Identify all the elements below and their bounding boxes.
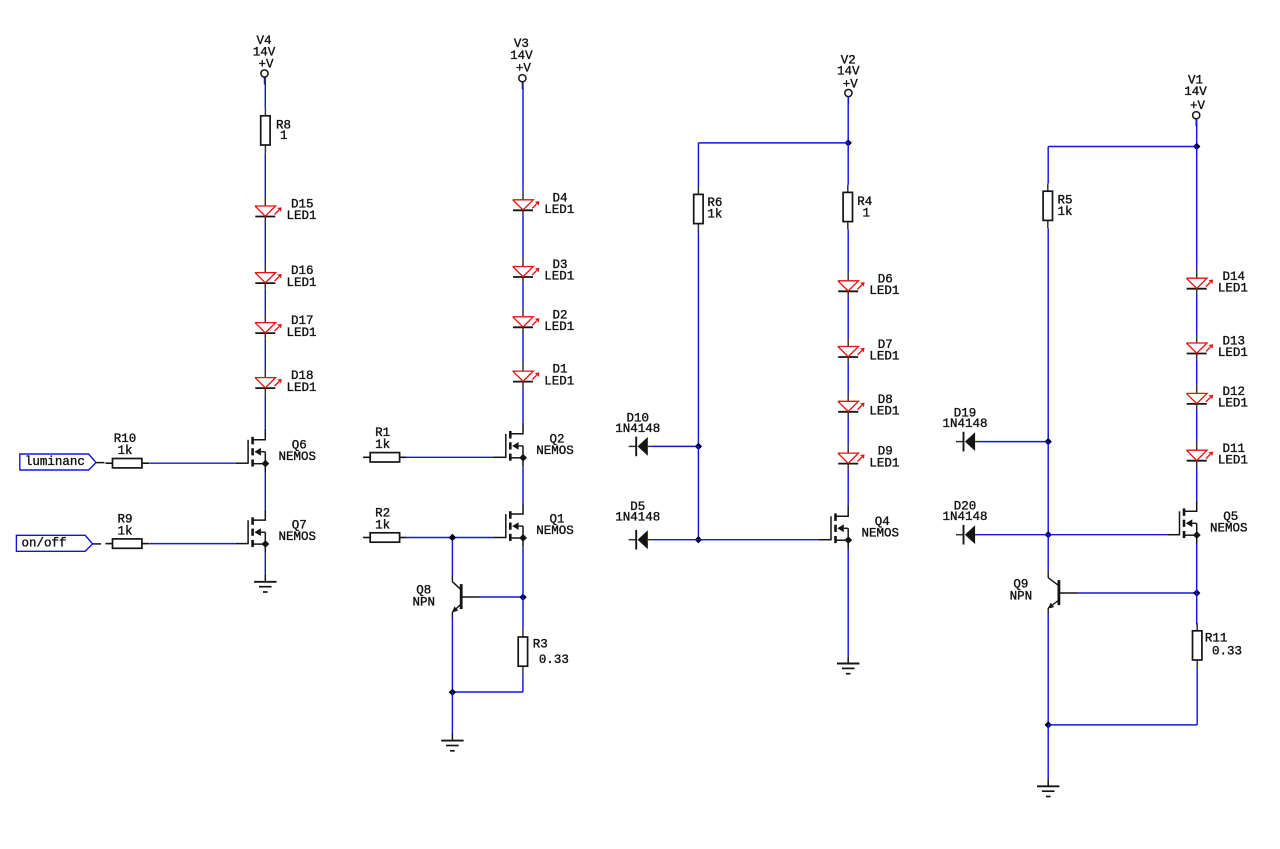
svg-text:LED1: LED1 [286,326,316,340]
svg-text:LED1: LED1 [544,374,574,388]
svg-text:1k: 1k [117,444,132,458]
svg-text:LED1: LED1 [1218,281,1248,295]
svg-text:1k: 1k [117,524,132,538]
svg-text:LED1: LED1 [1218,397,1248,411]
svg-text:LED1: LED1 [544,270,574,284]
svg-text:LED1: LED1 [869,456,899,470]
svg-text:1k: 1k [375,518,390,532]
svg-text:+V: +V [1190,99,1206,113]
svg-text:NPN: NPN [1010,589,1033,603]
svg-text:LED1: LED1 [286,276,316,290]
svg-text:1N4148: 1N4148 [615,422,660,436]
svg-text:1N4148: 1N4148 [615,511,660,525]
svg-text:on/off: on/off [22,536,67,550]
svg-text:NEMOS: NEMOS [536,444,574,458]
svg-text:NEMOS: NEMOS [279,530,317,544]
svg-text:R11: R11 [1205,631,1228,645]
svg-text:1: 1 [280,129,288,143]
svg-text:NEMOS: NEMOS [279,450,317,464]
svg-text:+V: +V [258,57,274,71]
svg-text:LED1: LED1 [544,203,574,217]
svg-text:luminanc: luminanc [25,455,85,469]
svg-text:+V: +V [516,61,532,75]
svg-text:+V: +V [843,77,859,91]
svg-text:1N4148: 1N4148 [942,510,987,524]
svg-text:NPN: NPN [412,595,435,609]
svg-text:LED1: LED1 [869,284,899,298]
svg-text:14V: 14V [1184,85,1207,99]
svg-text:LED1: LED1 [869,405,899,419]
svg-text:LED1: LED1 [286,381,316,395]
svg-text:LED1: LED1 [1218,346,1248,360]
svg-text:LED1: LED1 [1218,453,1248,467]
svg-text:1: 1 [863,207,871,221]
svg-text:LED1: LED1 [544,320,574,334]
svg-text:LED1: LED1 [286,209,316,223]
svg-text:NEMOS: NEMOS [861,526,899,540]
svg-text:1N4148: 1N4148 [942,417,987,431]
svg-text:NEMOS: NEMOS [1210,521,1248,535]
svg-text:R3: R3 [533,638,548,652]
svg-text:NEMOS: NEMOS [536,524,574,538]
svg-text:1k: 1k [707,208,722,222]
svg-text:0.33: 0.33 [539,653,569,667]
svg-text:1k: 1k [375,438,390,452]
svg-text:LED1: LED1 [869,350,899,364]
svg-text:0.33: 0.33 [1212,644,1242,658]
svg-text:1k: 1k [1058,205,1073,219]
